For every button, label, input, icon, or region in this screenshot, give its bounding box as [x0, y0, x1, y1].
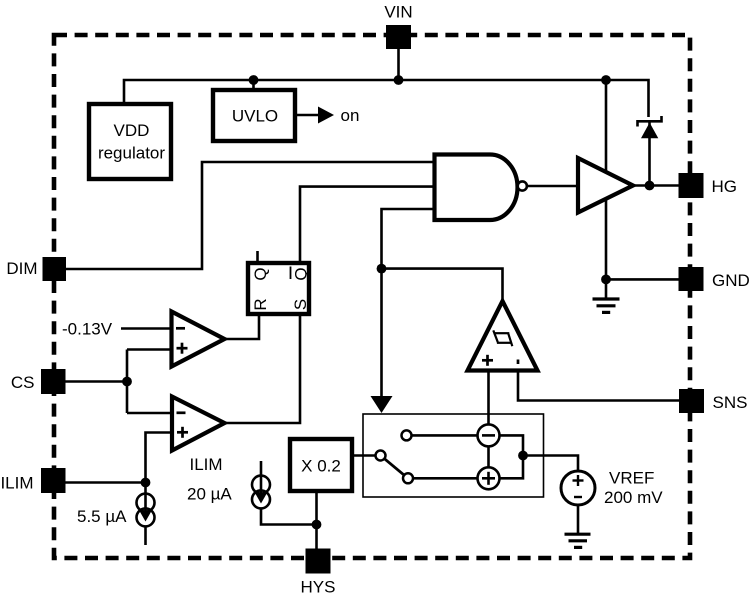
wire UVLO to rail: [252, 80, 255, 88]
NAND gate U1: [435, 155, 518, 221]
UVLO block: [213, 90, 295, 141]
wire CS branch vertical: [126, 350, 129, 414]
comparator 2: [172, 397, 225, 451]
svg-text:UVLO: UVLO: [232, 107, 278, 126]
node comparator output junction: [377, 264, 387, 274]
VREF source: [561, 471, 595, 505]
ground symbol driver: [593, 279, 620, 312]
wire 20uA source to HYS node: [261, 508, 317, 525]
svg-text:Q: Q: [292, 267, 311, 280]
ground symbol VREF: [565, 534, 591, 547]
wire driver output to HG: [633, 184, 679, 187]
svg-text:GND: GND: [712, 271, 750, 290]
svg-text:X 0.2: X 0.2: [301, 457, 341, 476]
pin CS: [41, 369, 66, 394]
pin GND: [679, 267, 704, 291]
svg-text:HG: HG: [712, 177, 738, 196]
node driver rail junction: [601, 75, 611, 85]
svg-text:SNS: SNS: [713, 393, 748, 412]
latch Qbar overline: [290, 267, 292, 280]
wire comparator minus input to SNS: [518, 371, 679, 401]
sigma minus node: [478, 424, 500, 446]
IC boundary dashed border: [54, 35, 690, 558]
wire CS node: [66, 380, 128, 383]
wire top VIN rail: [124, 80, 649, 117]
pin DIM: [43, 257, 67, 281]
off-time select box: [363, 414, 544, 497]
pin HG: [679, 173, 704, 198]
wire sigma minus to comparator plus input: [487, 371, 490, 425]
svg-text:5.5 µA: 5.5 µA: [77, 507, 127, 526]
svg-text:ILIM: ILIM: [0, 474, 33, 493]
current source 20uA: [252, 476, 270, 509]
svg-text:ILIM: ILIM: [190, 455, 223, 474]
SR latch: [248, 263, 309, 314]
wire NAND output to driver: [527, 185, 578, 188]
wire -0.13V to comparator 1 minus: [121, 327, 172, 330]
wire switch lower contact to sigma plus: [413, 477, 478, 480]
wire latch Q-bar to NAND input 2: [300, 187, 435, 261]
wire switch upper contact to sigma minus: [412, 434, 478, 437]
switch lower contact: [403, 473, 413, 483]
wire driver bottom to GND: [606, 199, 679, 280]
switch arm: [384, 459, 404, 476]
VDD regulator block: [89, 104, 171, 179]
schottky diode D1: [638, 116, 662, 138]
node UVLO rail junction: [249, 75, 259, 85]
node driver ground junction: [601, 275, 611, 285]
svg-text:S: S: [291, 299, 310, 310]
wire rail to driver top: [605, 80, 608, 172]
wire CS to comparator 2 minus: [127, 412, 172, 415]
wire below 5.5uA source: [144, 526, 147, 545]
wire node to VREF: [523, 456, 578, 472]
svg-text:HYS: HYS: [301, 578, 336, 597]
wire above 20uA source: [260, 461, 263, 476]
wire node to hysteresis comparator output: [382, 269, 503, 301]
svg-text:200 mV: 200 mV: [604, 488, 663, 507]
current source 5.5uA: [137, 494, 155, 527]
svg-text:R: R: [251, 298, 270, 310]
hysteresis symbol: [493, 330, 512, 346]
svg-text:VREF: VREF: [609, 469, 654, 488]
wire ILIM to node: [66, 481, 146, 484]
hysteresis comparator: [468, 301, 538, 371]
switch pole contact: [376, 451, 386, 461]
wire diode anode to HG node: [648, 121, 651, 186]
svg-text:on: on: [341, 106, 360, 125]
svg-text:regulator: regulator: [98, 144, 165, 163]
node VIN rail junction: [394, 75, 404, 85]
sigma plus node: [478, 467, 500, 489]
wire comparator2 output to latch S: [225, 316, 301, 423]
svg-text:VIN: VIN: [384, 3, 412, 22]
svg-text:DIM: DIM: [6, 259, 37, 278]
svg-text:VDD: VDD: [114, 121, 150, 140]
latch Q stub: [256, 251, 259, 261]
driver buffer: [578, 158, 633, 213]
pin ILIM: [41, 468, 66, 493]
wire comparator output to NAND input 3: [382, 209, 435, 397]
switch upper contact: [402, 430, 412, 440]
node diode HG junction: [645, 181, 655, 191]
pin VIN: [386, 25, 411, 49]
wire X0.2 box to HYS pin: [315, 493, 318, 549]
pin SNS: [679, 389, 704, 413]
svg-text:CS: CS: [11, 373, 35, 392]
wire between sigma nodes: [487, 447, 490, 468]
svg-text:20 µA: 20 µA: [187, 485, 232, 504]
arrow into off-time select box: [371, 396, 393, 413]
wire comparator1 output to latch R: [225, 316, 260, 339]
wire ILIM branch to comparator 2 plus: [146, 433, 173, 495]
node ILIM junction: [141, 478, 151, 488]
wire VREF to ground: [577, 505, 580, 533]
svg-text:Q: Q: [251, 267, 270, 280]
pin HYS: [306, 549, 331, 574]
node HYS junction: [312, 520, 322, 530]
wire VIN pin to rail: [397, 49, 400, 80]
X 0.2 block: [290, 439, 352, 491]
node sigma right junction: [518, 451, 528, 461]
wire DIM to NAND input 1: [66, 162, 435, 269]
svg-text:-0.13V: -0.13V: [62, 320, 113, 339]
comparator 1: [172, 312, 225, 367]
wire CS to comparator 1 plus: [127, 348, 172, 351]
wire X0.2 output to switch: [354, 454, 376, 457]
node CS junction: [122, 377, 132, 387]
arrow UVLO on: [297, 114, 319, 117]
wire sigma right loop: [500, 435, 524, 478]
